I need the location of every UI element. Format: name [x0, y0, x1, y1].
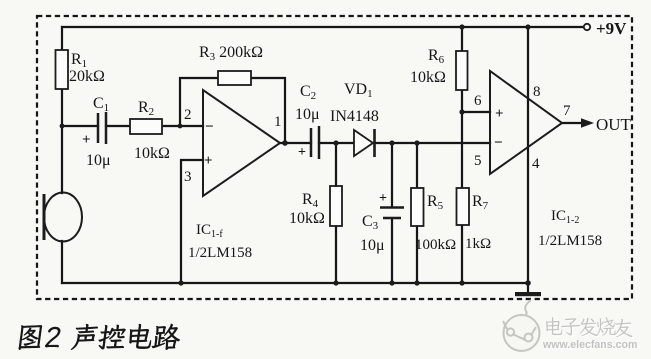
svg-text:C2: C2 [300, 83, 316, 102]
wire R6 branch from supply [461, 27, 463, 51]
svg-text:100kΩ: 100kΩ [415, 237, 456, 253]
diode VD1 [354, 129, 375, 157]
resistor R5 [411, 188, 424, 226]
wire top supply bus [62, 26, 584, 28]
svg-text:−: − [494, 135, 503, 151]
wire R2 to pin 2 [162, 125, 203, 127]
resistor R7 [457, 188, 470, 225]
svg-text:C1: C1 [93, 95, 109, 114]
svg-text:www.elecfans.com: www.elecfans.com [542, 339, 637, 351]
capacitor C1 [98, 112, 106, 144]
wire mic branch [61, 126, 63, 193]
svg-text:1kΩ: 1kΩ [465, 236, 491, 252]
resistor R1 [56, 50, 69, 89]
svg-text:2: 2 [184, 107, 192, 123]
wire op-amp2 power pin 8 / pin 4 vertical [527, 27, 529, 283]
wire pin 3 stub to ground bus [181, 160, 203, 283]
output arrow [581, 118, 594, 128]
svg-text:+: + [379, 191, 387, 206]
svg-text:10μ: 10μ [360, 237, 385, 254]
wire R4 branch [335, 143, 337, 186]
microphone BM [44, 193, 82, 242]
watermark logo [503, 300, 540, 351]
svg-text:R2: R2 [138, 99, 154, 118]
watermark brand text [546, 317, 634, 338]
svg-text:10kΩ: 10kΩ [134, 145, 170, 162]
wire R5 branch [416, 143, 418, 188]
wire bottom ground bus [62, 282, 528, 284]
resistor R4 [330, 186, 342, 226]
caption 图2 声控电路 [18, 324, 182, 350]
svg-text:6: 6 [474, 93, 482, 109]
wire input to C1 [62, 125, 98, 127]
wire feedback loop [180, 78, 218, 126]
op-amp U2 triangle [490, 71, 562, 174]
svg-text:10μ: 10μ [86, 152, 111, 169]
svg-text:−: − [205, 119, 214, 135]
svg-text:5: 5 [474, 153, 482, 169]
svg-text:VD1: VD1 [344, 81, 373, 100]
dashed enclosure border [37, 16, 632, 299]
svg-text:10μ: 10μ [295, 106, 320, 123]
wire ground stem [527, 283, 529, 292]
svg-text:R6: R6 [428, 47, 445, 66]
svg-text:R3 200kΩ: R3 200kΩ [199, 44, 263, 63]
svg-text:1/2LM158: 1/2LM158 [188, 245, 252, 261]
svg-text:7: 7 [563, 103, 571, 119]
svg-text:IC1-2: IC1-2 [551, 208, 579, 226]
svg-text:+: + [82, 132, 91, 148]
wire C1 to R2 [106, 125, 130, 127]
supply terminal +9V circle [584, 24, 590, 30]
op-amp U1 triangle [203, 90, 280, 196]
capacitor C2 [311, 126, 319, 159]
svg-text:8: 8 [533, 84, 541, 100]
svg-text:+9V: +9V [596, 19, 627, 38]
wire pin 6 stub [462, 111, 490, 113]
ground symbol [515, 292, 541, 296]
svg-text:3: 3 [184, 169, 192, 185]
svg-text:+: + [298, 145, 306, 160]
resistor R2 [130, 119, 162, 134]
svg-text:C3: C3 [362, 213, 379, 232]
svg-text:R5: R5 [427, 193, 444, 212]
svg-text:10kΩ: 10kΩ [289, 210, 325, 227]
wire C3 branch [391, 143, 393, 207]
svg-text:IC1-f: IC1-f [196, 222, 223, 240]
svg-text:R4: R4 [302, 191, 319, 210]
svg-text:1: 1 [274, 114, 282, 130]
resistor R3 [218, 71, 251, 85]
svg-text:R7: R7 [472, 193, 489, 212]
capacitor C3 (polarized, horizontal plates) [380, 208, 404, 219]
svg-text:4: 4 [532, 156, 540, 172]
svg-text:1/2LM158: 1/2LM158 [538, 233, 602, 249]
svg-text:+: + [495, 106, 504, 122]
wire op-amp2 output [562, 122, 583, 124]
svg-text:10kΩ: 10kΩ [410, 69, 446, 86]
resistor R6 [456, 51, 468, 90]
svg-text:IN4148: IN4148 [330, 108, 379, 125]
wire op-amp1 output to C2 [280, 142, 311, 144]
wire R7 branch [461, 112, 463, 188]
svg-text:OUT: OUT [596, 115, 632, 134]
wire diode to pin 5 [375, 142, 490, 144]
wire left vertical (R1 branch) [61, 27, 63, 50]
svg-text:20kΩ: 20kΩ [69, 68, 105, 85]
wire C2 to diode [319, 142, 354, 144]
svg-text:+: + [204, 153, 213, 169]
